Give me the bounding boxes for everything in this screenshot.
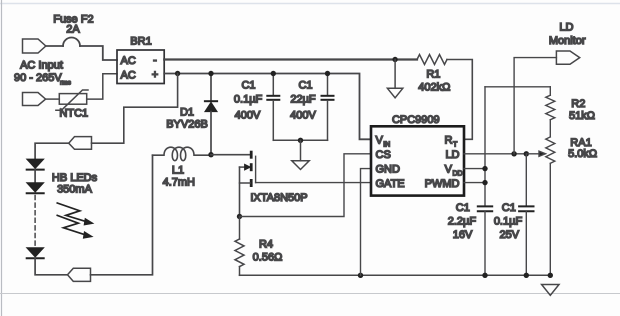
wire LED return to L1: [91, 155, 153, 275]
LED D4: [27, 248, 68, 275]
light emission arrow 1: [57, 203, 93, 225]
connector J5 LD monitor: [556, 51, 579, 64]
svg-text:0.1µF: 0.1µF: [234, 94, 263, 106]
wire dashed LED chain: [34, 196, 36, 246]
svg-text:25V: 25V: [500, 229, 520, 241]
wire minus rail: [164, 58, 417, 60]
svg-text:0.1µF: 0.1µF: [494, 216, 523, 228]
wire CS sense: [240, 154, 372, 217]
IC U1 CPC9909: [371, 126, 464, 195]
svg-text:BYV26B: BYV26B: [166, 119, 208, 131]
svg-text:DD: DD: [453, 170, 463, 177]
diode D1: [205, 74, 217, 155]
fuse F2: [46, 38, 117, 61]
border top hairline: [0, 3, 620, 5]
svg-text:CS: CS: [376, 149, 391, 161]
wire LED feed: [92, 74, 178, 144]
svg-text:+: +: [152, 69, 158, 81]
capacitor C1d 0.1uF 25V: [519, 154, 533, 275]
wire caps ground tie: [273, 139, 327, 141]
svg-text:R1: R1: [426, 68, 440, 80]
svg-text:4.7mH: 4.7mH: [163, 177, 195, 189]
svg-text:BR1: BR1: [130, 36, 151, 48]
border bottom hairline: [0, 293, 620, 295]
svg-text:16V: 16V: [453, 229, 473, 241]
node PWMD: [482, 180, 487, 185]
svg-text:PWMD: PWMD: [425, 178, 460, 190]
svg-text:5.0kΩ: 5.0kΩ: [568, 148, 597, 160]
svg-text:D1: D1: [180, 107, 194, 119]
node on minus rail: [392, 57, 397, 62]
wire drain: [211, 154, 251, 156]
ground below minus rail: [387, 60, 402, 98]
svg-text:HB LEDs: HB LEDs: [52, 172, 98, 184]
svg-text:C1: C1: [502, 202, 516, 214]
LED D2: [27, 159, 44, 183]
wire LD monitor: [514, 58, 556, 154]
svg-text:NTC1: NTC1: [59, 108, 88, 120]
svg-text:22µF: 22µF: [290, 94, 316, 106]
svg-text:C1: C1: [241, 80, 255, 92]
svg-text:IXTA8N50P: IXTA8N50P: [250, 192, 307, 204]
svg-text:AC: AC: [121, 55, 136, 67]
label 22uF 400V: [290, 94, 316, 122]
capacitor C1b 22uF 400V: [322, 74, 334, 141]
svg-text:rms: rms: [60, 80, 72, 87]
border left hairline: [1, 0, 3, 316]
node VDD: [482, 166, 487, 171]
node GND rail: [358, 273, 363, 278]
thermistor NTC1: [46, 74, 117, 110]
node LED tap: [175, 71, 180, 76]
wire minus rail to RT: [447, 60, 472, 140]
label 0.1uF 400V: [234, 94, 263, 122]
svg-text:-: -: [153, 55, 157, 67]
bridge rectifier BR1: [117, 50, 164, 84]
resistor R1: [417, 55, 447, 65]
svg-text:Monitor: Monitor: [549, 35, 586, 47]
label 2.2uF 16V: [448, 216, 477, 241]
svg-text:T: T: [453, 141, 458, 148]
connector J2 AC input line 2: [23, 93, 46, 106]
wire LD row: [464, 153, 528, 155]
node C1b plus rail: [325, 71, 330, 76]
ground below caps: [292, 140, 309, 169]
svg-text:R2: R2: [571, 98, 585, 110]
svg-text:400V: 400V: [290, 109, 316, 121]
node source junction: [237, 214, 242, 219]
wire GND pin: [361, 169, 372, 276]
node C1c rail: [482, 273, 487, 278]
wire plus rail: [164, 74, 371, 140]
svg-text:LD: LD: [445, 149, 459, 161]
svg-text:GND: GND: [376, 164, 401, 176]
svg-text:AC Input: AC Input: [20, 60, 63, 72]
svg-text:51kΩ: 51kΩ: [569, 110, 595, 122]
svg-text:90 - 265V: 90 - 265V: [14, 72, 62, 84]
svg-text:GATE: GATE: [376, 178, 405, 190]
svg-text:2.2µF: 2.2µF: [448, 216, 477, 228]
resistor R4: [235, 217, 244, 276]
svg-text:2A: 2A: [66, 24, 80, 36]
node RA1 rail: [548, 273, 553, 278]
svg-text:RA1: RA1: [570, 137, 591, 149]
transistor Q1 IXTA8N50P: [240, 152, 256, 216]
svg-text:402kΩ: 402kΩ: [418, 82, 450, 94]
wire R2 feed: [485, 86, 550, 88]
connector J4 LED cathode: [68, 268, 91, 281]
svg-text:C1: C1: [298, 80, 312, 92]
wire LED chain top: [35, 143, 69, 159]
svg-text:R: R: [445, 135, 453, 147]
svg-text:0.56Ω: 0.56Ω: [253, 252, 283, 264]
wiper arrow RA1: [528, 151, 546, 156]
svg-text:AC: AC: [121, 70, 136, 82]
ground bottom right: [542, 285, 559, 296]
node LD monitor tap: [511, 151, 516, 156]
connector J1 AC input line 1: [23, 39, 46, 53]
svg-text:L1: L1: [172, 165, 184, 177]
svg-text:LD: LD: [559, 22, 573, 34]
svg-text:R4: R4: [259, 239, 273, 251]
node D1 plus rail: [208, 71, 213, 76]
svg-text:V: V: [445, 164, 453, 176]
resistor R2: [546, 87, 555, 137]
wire ground rail bottom: [240, 274, 551, 276]
node caps tie: [298, 138, 303, 143]
potentiometer RA1: [546, 137, 555, 275]
node C1a plus rail: [271, 71, 276, 76]
node drain junction: [208, 152, 213, 157]
label 0.1uF 25V: [494, 216, 523, 241]
label 90 - 265Vrms: [14, 72, 72, 87]
capacitor C1a 0.1uF 400V: [267, 74, 279, 141]
svg-text:IN: IN: [383, 141, 390, 148]
wire C1c bottom: [484, 212, 486, 276]
LED D3: [27, 183, 44, 194]
light emission arrow 2: [57, 215, 92, 238]
capacitor C1c 2.2uF 16V: [478, 206, 492, 211]
wire VDD net: [464, 87, 485, 206]
wire gate: [256, 182, 371, 184]
svg-text:350mA: 350mA: [57, 184, 93, 196]
connector J3 LED anode: [69, 137, 92, 150]
svg-text:C1: C1: [456, 202, 470, 214]
inductor L1: [153, 147, 212, 161]
svg-text:400V: 400V: [235, 109, 261, 121]
svg-text:CPC9909: CPC9909: [392, 114, 440, 126]
node LD cap tap: [524, 151, 529, 156]
node C1d rail: [524, 273, 529, 278]
